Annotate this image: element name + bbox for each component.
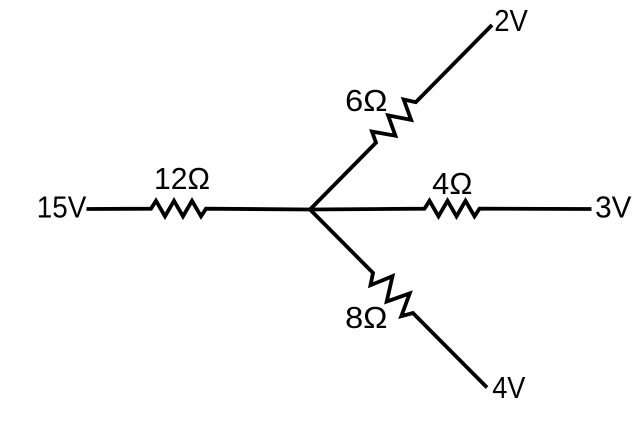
svg-text:12Ω: 12Ω: [154, 162, 210, 196]
svg-text:4V: 4V: [492, 371, 526, 405]
svg-text:15V: 15V: [37, 190, 87, 224]
svg-text:6Ω: 6Ω: [345, 84, 387, 118]
svg-text:4Ω: 4Ω: [432, 167, 472, 201]
svg-text:2V: 2V: [494, 4, 528, 38]
svg-text:8Ω: 8Ω: [345, 301, 387, 335]
svg-text:3V: 3V: [595, 191, 632, 225]
